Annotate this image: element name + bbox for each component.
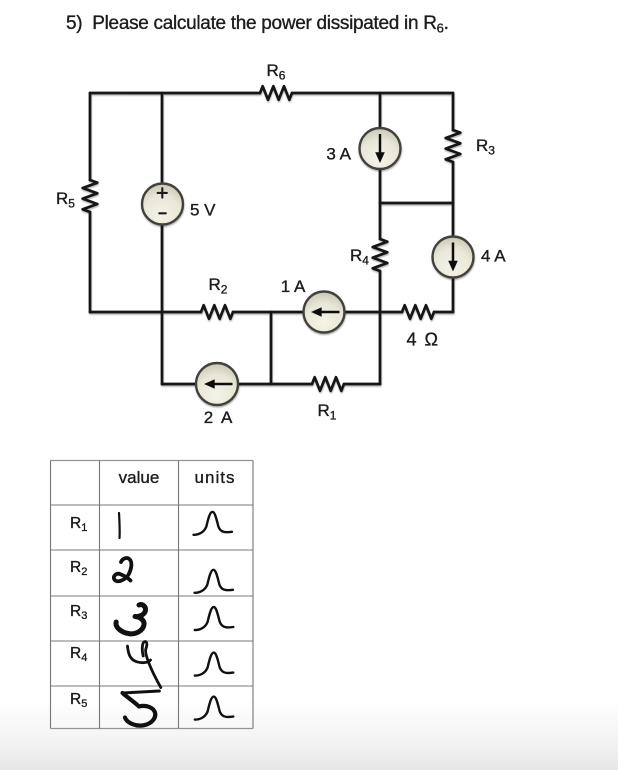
handwritten value 4 loop and tail [142,642,161,688]
svg-text:2 A: 2 A [204,408,235,427]
svg-text:1 A: 1 A [281,277,306,296]
svg-text:5) Please calculate the power: 5) Please calculate the power dissipated… [66,13,449,36]
resistor R6 [260,86,292,100]
resistor 4 ohm [402,305,434,319]
resistor R3 [446,130,461,162]
wire left lower (R5 down to node C) [89,212,92,312]
svg-text:R2: R2 [70,559,87,578]
current source 3A arrow [379,134,382,154]
svg-text:R5: R5 [56,189,75,211]
current source I2 4A circle [433,237,474,278]
wire middle far right (4ohm to node D) [434,311,453,314]
wire left upper (node A down to R5) [89,93,92,180]
wire right middle (R3 to node E) [452,162,455,237]
svg-text:R6: R6 [267,61,286,83]
svg-text:R3: R3 [476,136,495,158]
handwritten ohm row1 [194,512,233,535]
current source 1A arrow [320,311,340,314]
wire middle right (1A source to 4ohm resistor) [344,311,402,314]
svg-text:4 A: 4 A [481,247,506,266]
svg-text:3 A: 3 A [326,145,351,164]
handwritten value 1 [118,513,121,538]
svg-text:units: units [195,468,236,487]
current source I3 1A circle [304,292,345,333]
svg-text:5 V: 5 V [190,201,216,220]
wire source branch lower (5V source to bottom wire) [161,224,164,384]
bottom page gradient [0,700,618,770]
resistor R4 [373,239,388,271]
wire center branch bottom (R4 to bottom wire) [379,271,382,384]
resistor R5 [83,180,98,212]
svg-text:R1: R1 [318,401,337,423]
handwritten value 5 top bar [123,691,160,693]
wire source branch upper (top wire to 5V source) [161,93,164,184]
handwritten value 3 [116,605,145,634]
svg-text:R2: R2 [209,275,228,297]
wire middle (R2 to 1A source) [233,311,304,314]
wire center branch top (top wire to 3A source) [379,93,382,128]
current source 4A arrow [452,243,455,263]
wire bottom left (source branch to 2A source) [162,383,196,386]
handwritten ohm row3 [195,607,234,630]
handwritten value 4 left hook [128,646,151,663]
svg-text:4 Ω: 4 Ω [407,330,440,350]
wire drop branch (middle wire to bottom wire) [270,312,273,384]
wire right top (node B to R3) [452,93,455,130]
handwritten ohm row4 [195,653,234,676]
current source I1 3A circle [360,128,401,169]
wire right (4A source to node D) [452,277,455,312]
svg-text:R5: R5 [70,691,87,710]
voltage source minus sign [159,212,166,214]
svg-text:R3: R3 [70,603,87,622]
svg-text:R1: R1 [70,515,87,534]
wire top right (R6 to node B) [292,92,453,95]
handwritten ohm row2 [195,570,234,593]
svg-text:R4: R4 [350,246,369,268]
wire bottom right (R1 to center branch) [344,383,380,386]
wire middle left (node C to R2) [90,311,201,314]
current source 2A arrow [213,383,233,386]
handwritten ohm row5 [195,697,234,720]
wire top left (node A to R6) [90,92,260,95]
table vertical borders [51,461,254,729]
svg-text:R4: R4 [70,645,87,664]
voltage source plus sign [158,188,167,197]
wire center branch (3A source to R4) [379,169,382,239]
handwritten value 2 [114,558,132,581]
svg-text:value: value [119,468,160,487]
voltage source V1 5V circle [142,184,183,225]
table horizontal borders [51,461,254,729]
resistor R1 [312,377,344,391]
table grid [51,461,254,729]
resistor R2 [201,305,233,319]
current source I4 2A circle [196,363,238,405]
wire connector (node E horizontal to center branch) [380,202,453,205]
handwritten value 5 body [123,693,156,726]
wire bottom middle (2A source to R1) [238,383,312,386]
